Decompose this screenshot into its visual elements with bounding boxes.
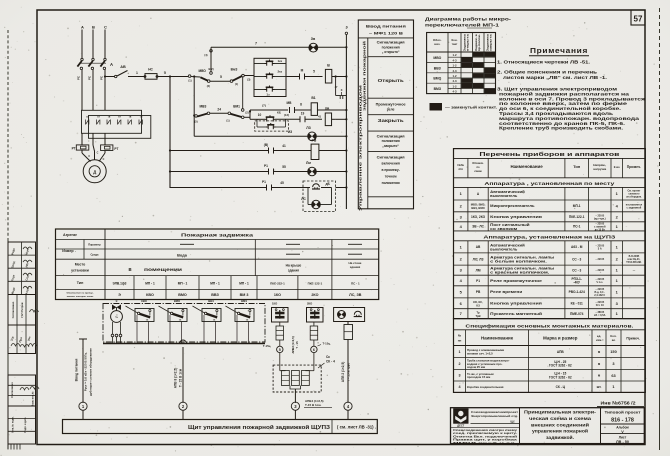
- svg-text:Типовой проект: Типовой проект: [605, 411, 641, 415]
- svg-text:ПС-1: ПС-1: [573, 225, 581, 229]
- svg-text:во: во: [612, 338, 616, 342]
- svg-text:ВМ1: ВМ1: [233, 105, 240, 109]
- svg-text:1кз: 1кз: [278, 59, 283, 63]
- svg-text:помещении: помещении: [144, 267, 183, 272]
- svg-text:ЭЛВ.1ф3: ЭЛВ.1ф3: [113, 282, 127, 286]
- svg-text:ПКЕ-222-1: ПКЕ-222-1: [270, 282, 285, 286]
- svg-text:Ввод питания: Ввод питания: [75, 359, 79, 382]
- svg-text:Согласовано: Согласовано: [11, 382, 14, 398]
- svg-text:РТ: РТ: [114, 147, 118, 151]
- svg-text:(1): (1): [188, 79, 191, 83]
- svg-text:1-2: 1-2: [452, 84, 456, 88]
- svg-text:положении: положении: [382, 181, 400, 185]
- svg-text:Лист: Лист: [619, 435, 627, 439]
- svg-text:АВ: АВ: [120, 65, 126, 69]
- svg-text:На крыше: На крыше: [286, 263, 302, 267]
- svg-text:дБ: дБ: [326, 182, 331, 186]
- svg-text:ЛЗ: ЛЗ: [306, 126, 311, 130]
- svg-text:Реле промежуточное: Реле промежуточное: [490, 279, 542, 283]
- svg-text:схеме: схеме: [474, 170, 482, 173]
- svg-text:5: 5: [164, 71, 166, 75]
- svg-text:МП - 1: МП - 1: [145, 282, 155, 286]
- svg-text:со звонком: со звонком: [490, 227, 517, 231]
- svg-text:С: С: [103, 158, 105, 161]
- svg-text:„закрыто“: „закрыто“: [382, 144, 399, 148]
- svg-text:Т-15ц.: Т-15ц.: [263, 344, 271, 348]
- svg-text:816 - 178: 816 - 178: [611, 418, 634, 424]
- svg-text:МВО: МВО: [199, 69, 207, 73]
- svg-text:3: 3: [458, 374, 460, 378]
- svg-text:Измер .: Измер .: [62, 249, 75, 253]
- svg-text:57: 57: [634, 15, 643, 24]
- svg-text:(2): (2): [245, 111, 248, 115]
- svg-text:1: 1: [136, 71, 138, 75]
- svg-text:С: С: [88, 155, 90, 158]
- svg-text:Ск: Ск: [326, 355, 330, 359]
- svg-text:МП-1: МП-1: [573, 204, 581, 208]
- svg-text:ВВЗ: ВВЗ: [434, 66, 441, 70]
- svg-text:(1): (1): [235, 82, 238, 86]
- svg-text:РВ: РВ: [312, 139, 317, 143]
- svg-text:1-2: 1-2: [452, 53, 456, 57]
- svg-text:0: 0: [346, 26, 348, 30]
- svg-text:Диаграмма работы микро-: Диаграмма работы микро-: [425, 17, 512, 22]
- svg-text:реле: реле: [387, 108, 395, 112]
- svg-text:Реле времени: Реле времени: [490, 290, 523, 294]
- svg-text:2КО: 2КО: [307, 302, 312, 306]
- svg-text:КВО: КВО: [141, 299, 147, 303]
- svg-text:положения: положения: [382, 45, 400, 49]
- svg-text:Управление электроприводом: Управление электроприводом: [357, 85, 362, 211]
- svg-text:здания: здания: [350, 265, 361, 269]
- svg-text:МВО: МВО: [433, 56, 441, 60]
- svg-text:МВЗ: МВЗ: [200, 105, 207, 109]
- svg-text:СК - Ц: СК - Ц: [556, 385, 566, 389]
- svg-text:ТрВ: ТрВ: [475, 314, 480, 318]
- svg-text:1КО: 1КО: [274, 293, 281, 297]
- svg-text:КЗ: КЗ: [476, 304, 480, 308]
- svg-text:ческая схема и схема: ческая схема и схема: [529, 416, 592, 421]
- svg-text:Место: Место: [75, 263, 86, 267]
- svg-text:ВВЗ: ВВЗ: [208, 299, 214, 303]
- svg-text:ЛМ: ЛМ: [476, 268, 481, 272]
- svg-text:ГАП Петров: ГАП Петров: [20, 302, 24, 317]
- svg-text:Р1: Р1: [262, 180, 266, 184]
- svg-text:НС: НС: [148, 68, 153, 72]
- svg-text:дублирует силовое оборудован: дублирует силовое оборудование: [89, 348, 93, 396]
- svg-text:1КО, 2КО: 1КО, 2КО: [471, 215, 486, 219]
- svg-text:такт: такт: [452, 42, 458, 46]
- svg-text:ВВЗ: ВВЗ: [211, 293, 219, 297]
- svg-text:нагрузка: нагрузка: [593, 167, 606, 171]
- svg-text:С: С: [104, 25, 107, 30]
- svg-text:Параметр: Параметр: [88, 243, 101, 247]
- svg-text:Альбом: Альбом: [616, 425, 629, 429]
- svg-text:С: С: [97, 152, 99, 155]
- svg-text:КО, КС,: КО, КС,: [473, 300, 483, 304]
- svg-text:установки: установки: [71, 269, 89, 273]
- svg-text:по: по: [476, 166, 480, 169]
- svg-text:Крепление труб производить: Крепление труб производить скобами.: [499, 126, 623, 131]
- svg-text:Примеч.: Примеч.: [626, 337, 640, 341]
- svg-text:Руст ≈ 0,6 кВт ~220 В 50Гц: Руст ≈ 0,6 кВт ~220 В 50Гц: [84, 353, 88, 392]
- svg-text:МВ: МВ: [287, 101, 293, 105]
- svg-text:(кр.+чрн.): (кр.+чрн.): [594, 217, 606, 220]
- svg-text:Т-15 В 1см.: Т-15 В 1см.: [305, 403, 322, 407]
- svg-text:(2): (2): [207, 84, 210, 88]
- svg-text:Д: Д: [93, 169, 96, 174]
- svg-text:45: 45: [280, 181, 284, 185]
- svg-text:4-3: 4-3: [452, 58, 456, 62]
- svg-text:эл.оборудов.: эл.оборудов.: [626, 196, 642, 199]
- svg-text:Микропереключатель: Микропереключатель: [490, 204, 535, 208]
- svg-text:Согласовано: Согласовано: [11, 301, 15, 318]
- svg-text:ПКЕ-122-1: ПКЕ-122-1: [308, 282, 323, 286]
- svg-text:Наименование: Наименование: [481, 336, 514, 341]
- svg-text:Э: Э: [116, 299, 118, 303]
- svg-text:ВВЗ, ВМО: ВВЗ, ВМО: [471, 206, 484, 210]
- svg-text:Коробка соединительная: Коробка соединительная: [467, 385, 504, 389]
- svg-text:проходом 15 мм: проходом 15 мм: [467, 375, 490, 379]
- svg-text:Примечания: Примечания: [530, 46, 588, 55]
- svg-text:Тип: Тип: [77, 281, 84, 285]
- svg-text:ПС - 1: ПС - 1: [351, 282, 360, 286]
- svg-text:ЛС, ЗВ: ЛС, ЗВ: [349, 293, 362, 297]
- svg-text:( см. лист ЛВ -31) .: ( см. лист ЛВ -31) .: [337, 425, 376, 430]
- svg-text:Агрегат: Агрегат: [63, 233, 77, 237]
- svg-text:А: А: [81, 25, 84, 30]
- svg-text:Т - 15 В труб: Т - 15 В труб: [347, 363, 351, 382]
- svg-text:задвижкой.: задвижкой.: [546, 435, 574, 440]
- svg-text:МП - 1: МП - 1: [178, 282, 188, 286]
- svg-text:8: 8: [300, 103, 302, 107]
- svg-text:Аппаратура , установленная: Аппаратура , установленная по месту: [484, 181, 615, 186]
- svg-text:изм.: изм.: [596, 338, 602, 342]
- svg-text:Примеч.: Примеч.: [627, 165, 641, 169]
- svg-text:Обозначение по принци-: Обозначение по принци-: [67, 292, 94, 295]
- svg-text:выключатель: выключатель: [490, 194, 518, 198]
- svg-text:ВМЗ: ВМЗ: [434, 87, 441, 91]
- svg-text:Спецификация основных монта: Спецификация основных монтажных материал…: [465, 322, 633, 328]
- svg-text:2А = 0,5А: 2А = 0,5А: [594, 314, 606, 317]
- svg-text:Кнопка управления: Кнопка управления: [490, 215, 542, 219]
- svg-text:1-2: 1-2: [452, 74, 456, 78]
- svg-text:АПВ: АПВ: [557, 350, 565, 354]
- svg-text:в промежу-: в промежу-: [381, 168, 399, 172]
- svg-text:МВО; ВМЗ;: МВО; ВМЗ;: [471, 203, 486, 207]
- svg-text:РВО-1-424: РВО-1-424: [569, 290, 585, 294]
- svg-text:Кнопка управления: Кнопка управления: [490, 302, 542, 306]
- svg-text:пиальн. электрич. схеме: пиальн. электрич. схеме: [67, 296, 94, 298]
- svg-text:ЛО; ЛЗ: ЛО; ЛЗ: [473, 257, 484, 261]
- svg-text:закрыта: закрыта: [490, 33, 493, 51]
- svg-text:19: 19: [301, 112, 305, 116]
- svg-text:ИЗ: ИЗ: [288, 130, 292, 134]
- svg-text:2: 2: [458, 362, 460, 366]
- svg-text:ПКЕ-122-1: ПКЕ-122-1: [569, 215, 585, 219]
- svg-text:1. Относящиеся чертежи ЛВ -: 1. Относящиеся чертежи ЛВ -51.: [497, 60, 590, 65]
- svg-text:СС - 3: СС - 3: [572, 257, 581, 261]
- svg-text:МП - 1: МП - 1: [239, 282, 249, 286]
- svg-text:~ 220 В: ~ 220 В: [595, 269, 604, 272]
- svg-text:жилами сеч. 1×2,5: жилами сеч. 1×2,5: [466, 351, 493, 355]
- svg-text:КЕ - 011: КЕ - 011: [571, 302, 583, 306]
- svg-text:7: 7: [255, 42, 257, 46]
- svg-text:ЛВ: ЛВ: [325, 107, 330, 111]
- svg-text:В: В: [128, 267, 131, 272]
- svg-text:41: 41: [282, 144, 286, 148]
- svg-text:СС - 3: СС - 3: [572, 268, 581, 272]
- svg-text:Щит управления пожарной: Щит управления пожарной задвижкой ЩУПЗ: [188, 424, 331, 431]
- svg-text:точном: точном: [385, 175, 397, 179]
- svg-text:ходом 25 мм: ходом 25 мм: [467, 365, 485, 369]
- svg-text:ВМЗ: ВМЗ: [241, 299, 247, 303]
- svg-text:~ МФ1 120 В: ~ МФ1 120 В: [369, 32, 404, 36]
- svg-text:КВО: КВО: [146, 293, 154, 297]
- svg-text:Инв №6756 /2: Инв №6756 /2: [601, 401, 636, 406]
- svg-text:Перечень приборов и аппа: Перечень приборов и аппаратов: [479, 151, 620, 158]
- svg-text:Промежуточное: Промежуточное: [376, 103, 406, 107]
- svg-text:ВМО: ВМО: [178, 293, 187, 297]
- svg-text:включения: включения: [382, 162, 400, 166]
- svg-text:пп: пп: [458, 339, 462, 343]
- svg-text:ВМО: ВМО: [433, 77, 441, 81]
- svg-text:РВ: РВ: [476, 290, 481, 294]
- svg-text:55: 55: [282, 165, 286, 169]
- svg-text:МП - 1: МП - 1: [210, 282, 220, 286]
- svg-text:2кз: 2кз: [278, 70, 283, 74]
- svg-text:ПМВЛ проб и тд.: ПМВЛ проб и тд.: [453, 441, 518, 445]
- svg-text:нач.: нач.: [434, 42, 440, 46]
- svg-text:„ открыто“: „ открыто“: [382, 50, 400, 54]
- svg-text:ПМЕ-074: ПМЕ-074: [570, 312, 584, 316]
- svg-text:(5): (5): [194, 120, 197, 124]
- svg-text:АПВ 8 (1×2,5): АПВ 8 (1×2,5): [174, 368, 178, 389]
- svg-text:Подп. и дата: Подп. и дата: [24, 417, 27, 433]
- svg-text:внешних соединений: внешних соединений: [531, 422, 589, 427]
- svg-text:ГОСТ 3262 - 62: ГОСТ 3262 - 62: [549, 375, 572, 379]
- svg-text:РТ: РТ: [72, 147, 76, 151]
- svg-text:Р1: Р1: [264, 164, 268, 168]
- svg-text:ВмЗ: ВмЗ: [231, 68, 238, 72]
- svg-text:4-3: 4-3: [452, 90, 456, 94]
- svg-text:ДЕСТ: ДЕСТ: [457, 424, 464, 428]
- svg-text:5: 5: [279, 348, 281, 352]
- svg-text:В: В: [92, 25, 95, 30]
- svg-text:7: 7: [460, 311, 462, 316]
- svg-text:6: 6: [313, 348, 315, 352]
- svg-text:АВ: АВ: [476, 245, 481, 249]
- svg-text:открыта: открыта: [467, 33, 470, 51]
- svg-text:В1: В1: [311, 96, 315, 100]
- svg-text:2. Общие пояснения и переч: 2. Общие пояснения и перечень: [497, 70, 597, 75]
- svg-text:1-2: 1-2: [452, 64, 456, 68]
- svg-text:Э: Э: [118, 293, 121, 297]
- svg-text:задвижки пожарной: задвижки пожарной: [363, 41, 367, 111]
- svg-text:2КО: 2КО: [311, 293, 318, 297]
- svg-text:Взам. инв.№: Взам. инв.№: [32, 391, 35, 406]
- svg-text:Ч п.з.: Ч п.з.: [596, 281, 603, 284]
- svg-text:ЗВ - ЛС: ЗВ - ЛС: [472, 225, 484, 229]
- svg-text:4-3: 4-3: [452, 79, 456, 83]
- svg-text:положения: положения: [382, 139, 400, 143]
- svg-text:Энергопромышленный отд.: Энергопромышленный отд.: [471, 414, 518, 418]
- svg-text:управления пожарной: управления пожарной: [532, 429, 588, 434]
- svg-text:АПВ 2 (1×2,5): АПВ 2 (1×2,5): [341, 362, 345, 383]
- svg-text:Ввод питания: Ввод питания: [366, 25, 406, 29]
- svg-text:(3): (3): [247, 78, 250, 82]
- svg-text:Лм: Лм: [306, 161, 311, 165]
- svg-text:Пожарная задвижка: Пожарная задвижка: [181, 232, 254, 237]
- svg-text:5: 5: [313, 70, 315, 74]
- svg-text:ГОСТ 3262 - 62: ГОСТ 3262 - 62: [549, 364, 572, 368]
- svg-text:Открыть: Открыть: [378, 78, 404, 83]
- svg-text:ЛВ - 50: ЛВ - 50: [616, 440, 629, 444]
- svg-text:В: В: [327, 64, 330, 68]
- svg-text:V: V: [621, 430, 624, 434]
- svg-text:5: 5: [220, 75, 222, 79]
- svg-text:Наименование: Наименование: [510, 164, 543, 169]
- svg-text:Закрыть: Закрыть: [378, 118, 404, 123]
- svg-text:Марка и размер: Марка и размер: [543, 336, 578, 341]
- svg-text:шт.: шт.: [597, 385, 602, 389]
- svg-text:Р1: Р1: [476, 279, 480, 283]
- svg-text:Принципиальная электри-: Принципиальная электри-: [524, 410, 597, 415]
- svg-text:Т - 15: Т - 15: [295, 341, 299, 349]
- svg-text:А63 - М: А63 - М: [571, 245, 583, 249]
- svg-text:(12): (12): [284, 113, 289, 117]
- svg-text:ЩУ.: ЩУ.: [511, 421, 516, 424]
- svg-text:Тип: Тип: [573, 164, 581, 169]
- svg-text:п/п: п/п: [459, 167, 464, 171]
- svg-text:41: 41: [318, 115, 322, 119]
- svg-text:Вода: Вода: [177, 253, 188, 258]
- svg-text:с задвижкой: с задвижкой: [627, 206, 642, 209]
- svg-text:24: 24: [217, 108, 221, 112]
- svg-text:ВМ 3: ВМ 3: [240, 293, 249, 297]
- svg-text:~: ~: [115, 315, 118, 321]
- svg-text:Пускатель магнитный: Пускатель магнитный: [490, 312, 543, 316]
- svg-text:Сигнализация: Сигнализация: [377, 41, 405, 45]
- svg-text:Инв. № подл.: Инв. № подл.: [12, 416, 15, 432]
- svg-text:Тр: Тр: [476, 310, 480, 314]
- svg-text:1КО: 1КО: [272, 302, 277, 306]
- svg-text:Среда: Среда: [91, 253, 100, 257]
- svg-text:с красным колпачком.: с красным колпачком.: [490, 271, 549, 275]
- svg-text:10: 10: [258, 113, 262, 117]
- svg-text:здания: здания: [288, 268, 299, 272]
- svg-text:Т - 15 В 1см: Т - 15 В 1см: [179, 368, 183, 387]
- svg-text:Сигнализация: Сигнализация: [377, 156, 405, 160]
- svg-text:Сигнализация: Сигнализация: [377, 134, 405, 138]
- svg-text:М: М: [301, 69, 304, 73]
- svg-text:2,4-182 С: 2,4-182 С: [594, 294, 605, 297]
- svg-text:К-во: К-во: [614, 165, 620, 169]
- svg-text:Зв: Зв: [311, 37, 316, 41]
- svg-text:пр.полож.: пр.полож.: [478, 34, 481, 51]
- svg-text:-40У: -40У: [573, 280, 581, 284]
- svg-text:3 А: 3 А: [598, 247, 602, 250]
- svg-text:СК - 4: СК - 4: [326, 360, 335, 364]
- svg-text:ТУ16-535-891: ТУ16-535-891: [626, 261, 642, 264]
- svg-text:(1): (1): [226, 119, 229, 123]
- svg-text:4-3: 4-3: [452, 69, 456, 73]
- svg-text:листов марки „ЛВ“ см. лист: листов марки „ЛВ“ см. лист ЛВ -1.: [503, 75, 607, 80]
- svg-text:(7): (7): [262, 104, 266, 108]
- svg-text:1з: 1з: [266, 92, 270, 96]
- svg-text:переключателей МП-1: переключателей МП-1: [425, 22, 500, 27]
- svg-text:выключатель: выключатель: [490, 247, 518, 251]
- svg-text:~ 220 В: ~ 220 В: [595, 258, 604, 261]
- svg-text:Х: Х: [341, 88, 343, 92]
- svg-text:с белым колпачком.: с белым колпачком.: [490, 259, 547, 263]
- svg-text:ВМО: ВМО: [174, 299, 180, 303]
- svg-text:Обознач.: Обознач.: [472, 161, 484, 165]
- svg-text:Т-15ц.: Т-15ц.: [323, 342, 331, 346]
- svg-text:ЛС: ЛС: [301, 197, 306, 201]
- svg-text:Уст. 10: Уст. 10: [596, 304, 605, 307]
- svg-text:150: 150: [610, 349, 617, 354]
- svg-text:А: А: [110, 62, 113, 67]
- svg-text:Аппаратура, установленная: Аппаратура, установленная на ЩУПЗ: [483, 234, 615, 239]
- svg-text:— замкнутый контакт.: — замкнутый контакт.: [445, 105, 497, 110]
- svg-text:1: 1: [458, 350, 460, 354]
- svg-text:(4): (4): [204, 53, 207, 57]
- svg-text:(В): (В): [264, 143, 268, 147]
